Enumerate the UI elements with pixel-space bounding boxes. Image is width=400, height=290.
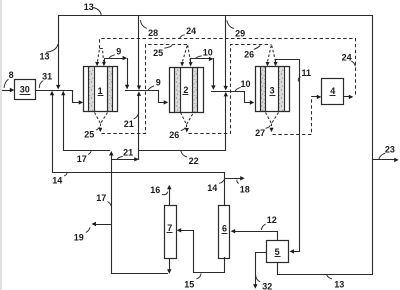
svg-text:9: 9 <box>156 77 161 87</box>
arrowheads of dashed V reactor 1 top <box>95 62 99 66</box>
leader for label 9 first <box>109 55 115 58</box>
leader for label 12 <box>261 224 265 230</box>
unit 4 <box>322 79 344 105</box>
leader for label 21 first <box>134 112 139 119</box>
svg-text:31: 31 <box>42 72 52 82</box>
underline of label 30 <box>20 94 31 96</box>
leader for label 14 first <box>64 173 67 176</box>
leader for label 24 right <box>351 61 355 66</box>
leader for label 13 top <box>93 8 101 15</box>
svg-text:30: 30 <box>20 85 30 95</box>
leader for label 18 <box>237 180 239 184</box>
underlines for unit labels <box>20 95 336 257</box>
wire line 21 vertical to junction <box>138 96 140 160</box>
leader for label 8 <box>4 79 8 88</box>
arrowheads of dashed V reactor 3 top <box>266 62 270 66</box>
unit 5 <box>267 241 289 263</box>
svg-text:4: 4 <box>330 86 335 96</box>
svg-text:32: 32 <box>262 282 272 290</box>
wire line 12 from unit 5 to vessel 6 <box>235 232 278 241</box>
svg-text:24: 24 <box>342 52 352 62</box>
leader for label 11 <box>298 77 300 82</box>
wire unit 5 bottom to recycle 13 <box>277 263 279 275</box>
wire line 14 riser <box>53 96 225 173</box>
svg-text:8: 8 <box>9 70 14 80</box>
leader for label 17 first <box>88 151 91 154</box>
svg-text:15: 15 <box>184 280 194 290</box>
svg-text:22: 22 <box>189 156 199 166</box>
svg-text:25: 25 <box>153 48 163 58</box>
svg-text:13: 13 <box>84 2 94 12</box>
leader for label 26 second <box>181 128 186 131</box>
leader for label 27 <box>266 125 271 128</box>
leader for label 31 <box>39 81 43 89</box>
vessel 7 <box>165 206 177 259</box>
wire from unit 30 to reactor 1 inlet <box>36 91 80 103</box>
arrow up into line 17 <box>109 151 114 156</box>
wire line 22 vertical to junction 2 <box>225 97 227 151</box>
leader for label 26 first <box>254 46 260 50</box>
svg-text:17: 17 <box>77 154 87 164</box>
wire dashed V out of reactor 2 bottom <box>181 113 194 125</box>
wire branch 21 lower <box>112 159 135 161</box>
wire line 28 vertical <box>138 16 140 86</box>
leader for label 14 second <box>219 180 224 184</box>
wire junction 1 feed to reactor 2 <box>126 91 165 103</box>
svg-text:10: 10 <box>203 47 213 57</box>
wire outlet 32 <box>256 253 267 285</box>
leader for label 10 second <box>235 87 241 91</box>
wire line 22 horizontal <box>139 150 226 152</box>
svg-text:2: 2 <box>183 85 188 95</box>
arrow 13 down into feed junction <box>56 85 60 90</box>
svg-text:19: 19 <box>74 233 84 243</box>
leader for label 13 bottom <box>327 275 333 279</box>
svg-text:12: 12 <box>267 215 277 225</box>
svg-text:27: 27 <box>255 128 265 138</box>
wire dashed purge line 24 top <box>100 39 356 97</box>
leader for label 24 top <box>180 35 185 38</box>
reactor 2 <box>170 68 204 113</box>
wire dashed V out of reactor 1 bottom <box>95 113 108 124</box>
vessel 6 <box>219 206 230 259</box>
leader for label 16 <box>162 192 168 195</box>
arrowhead of dashed line below reactor 2 <box>185 128 189 132</box>
svg-text:13: 13 <box>334 279 344 289</box>
svg-text:21: 21 <box>123 148 133 158</box>
leader for label 22 <box>181 151 187 157</box>
arrowhead of dashed line below reactor 1 <box>98 128 102 132</box>
leader for label 17 second <box>107 202 111 207</box>
svg-text:24: 24 <box>186 26 196 36</box>
wire unit 4 inlet arrow <box>315 96 318 98</box>
leader for label 28 <box>140 20 147 28</box>
unit 30 (feed box) <box>15 80 36 100</box>
svg-text:25: 25 <box>84 129 94 139</box>
underline of label 4 <box>330 95 336 97</box>
wire branch 18 <box>225 178 241 180</box>
svg-text:13: 13 <box>39 52 49 62</box>
underline of label 5 <box>275 256 281 258</box>
svg-text:26: 26 <box>169 130 179 140</box>
wire dashed V into reactor 2 top <box>183 45 191 62</box>
svg-text:7: 7 <box>167 223 172 233</box>
svg-text:10: 10 <box>240 79 250 89</box>
leader for label 29 <box>227 20 234 28</box>
svg-text:21: 21 <box>124 119 134 129</box>
leader for label 13 left <box>46 44 58 52</box>
wire recycle loop 13 top <box>59 16 373 275</box>
wire unit 4 outlet <box>344 96 350 98</box>
svg-text:14: 14 <box>52 176 62 186</box>
wire outlet 23 <box>373 159 395 161</box>
wire dashed purge line 25 <box>102 45 188 134</box>
svg-text:6: 6 <box>222 224 227 234</box>
svg-text:28: 28 <box>148 28 158 38</box>
wire product line 9 from reactor 1 top <box>105 59 124 63</box>
wire line 17 main vertical down-left <box>112 156 168 274</box>
svg-text:9: 9 <box>116 46 121 56</box>
arrowheads of dashed V reactor 2 top <box>180 62 184 66</box>
wire dashed purge line 27 to unit 4 <box>273 97 316 135</box>
wire dashed purge line 26 <box>189 45 272 134</box>
svg-text:5: 5 <box>275 247 280 257</box>
leader for label 19 <box>86 227 90 232</box>
leader for label 25 second <box>96 127 100 130</box>
leader for label 10 first <box>195 56 202 59</box>
underline of label 7 <box>167 232 173 234</box>
wire product line 10 from reactor 2 top <box>191 59 210 63</box>
reactor 3 <box>256 67 290 112</box>
leader for label 15 <box>197 273 202 278</box>
svg-text:26: 26 <box>244 49 254 59</box>
svg-text:18: 18 <box>240 185 250 195</box>
wire branch 19 <box>96 224 112 226</box>
wire line 17 riser <box>64 96 110 151</box>
arrowhead of dashed line below reactor 3 <box>269 128 273 132</box>
wire dashed V into reactor 1 top <box>98 49 104 62</box>
wire line 29 vertical <box>225 16 227 86</box>
svg-text:29: 29 <box>235 28 245 38</box>
leader for label 25 top <box>164 45 172 48</box>
svg-text:23: 23 <box>385 145 395 155</box>
leader for label 23 <box>379 153 385 159</box>
wire dashed V into reactor 3 top <box>268 45 276 62</box>
svg-text:17: 17 <box>96 193 106 203</box>
underline of label 1 <box>98 95 104 97</box>
wire arrow 16 up from vessel 7 <box>169 189 171 206</box>
svg-text:14: 14 <box>207 183 217 193</box>
wire product line 11 from reactor 3 top to unit 5 <box>276 60 300 252</box>
wire dashed V out of reactor 3 bottom <box>266 113 279 124</box>
svg-text:1: 1 <box>98 86 103 96</box>
svg-text:11: 11 <box>301 68 311 78</box>
svg-text:16: 16 <box>150 185 160 195</box>
reactor 1 <box>84 67 118 112</box>
underline of label 6 <box>222 233 228 235</box>
leader for label 21 second <box>117 156 123 159</box>
wire feed line 8 into unit 30 <box>3 90 12 92</box>
underline of label 3 <box>270 95 276 97</box>
leader for label 9 second <box>148 86 154 91</box>
wire line 15 loop vessel 6 bottom to vessel 7 <box>181 231 225 273</box>
leader for label 32 <box>256 275 261 282</box>
underline of label 2 <box>183 94 189 96</box>
wire line 14 down to vessel 6 <box>224 173 226 206</box>
page left border <box>0 0 2 290</box>
wire junction 2 feed to reactor 3 <box>212 92 251 103</box>
wire vessel 7 bottom outlet <box>169 259 171 270</box>
svg-text:3: 3 <box>270 86 275 96</box>
